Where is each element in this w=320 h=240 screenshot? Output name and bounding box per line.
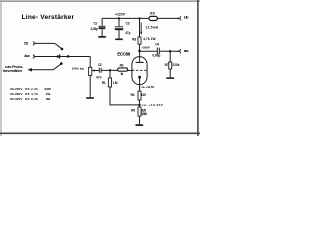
junction rail-R3 [138, 17, 140, 19]
svg-text:C1: C1 [94, 22, 98, 26]
capacitor C4 [156, 48, 158, 55]
wire arm to pot [89, 57, 91, 68]
svg-text:log: log [80, 66, 84, 70]
wire C2 to R2 [102, 69, 118, 71]
svg-text:R1: R1 [102, 81, 106, 85]
wire R3 to node +160V [139, 44, 141, 51]
anode lead [139, 51, 141, 62]
svg-text:C2: C2 [98, 63, 102, 67]
capacitor C1 [99, 25, 106, 27]
svg-text:CD: CD [24, 42, 29, 46]
wire R5 to ground [139, 116, 141, 124]
svg-text:47µ: 47µ [125, 31, 131, 35]
wire node to R7 [169, 51, 171, 62]
connector aus [178, 50, 180, 52]
ground (pot) [86, 97, 94, 99]
cathode dot [138, 76, 141, 79]
svg-text:0,5W: 0,5W [141, 112, 147, 116]
svg-text:R6 4,7k: R6 4,7k [25, 92, 38, 96]
ground (C3) [115, 38, 123, 40]
junction R4-R5 cathode tap [138, 104, 140, 106]
wire C1 drop [101, 18, 103, 25]
supply rail +220V [102, 17, 149, 19]
svg-text:aus: aus [184, 49, 189, 53]
svg-text:C3: C3 [126, 22, 130, 26]
resistor R3 [138, 37, 141, 44]
resistor R5 [138, 107, 141, 116]
wire CD to switch contact [55, 43, 62, 48]
resistor R4 [138, 91, 141, 100]
arrow zum Phono [28, 68, 32, 72]
anode bar [136, 61, 144, 63]
svg-text:1k: 1k [120, 72, 123, 76]
svg-text:47n: 47n [96, 75, 102, 79]
svg-text:R6 8,2k: R6 8,2k [25, 97, 38, 101]
svg-text:R7: R7 [165, 63, 169, 67]
wire CD input [35, 42, 55, 44]
svg-text:+160V: +160V [141, 46, 150, 50]
wire phono output [31, 69, 53, 71]
tube U1 ECC88 envelope [132, 57, 147, 85]
svg-text:Ub:280V: Ub:280V [10, 92, 24, 96]
svg-text:0,33µ: 0,33µ [91, 27, 98, 31]
svg-text:1M: 1M [113, 81, 118, 85]
svg-text:R5: R5 [131, 109, 135, 113]
capacitor C3 [115, 26, 123, 28]
wire pot to ground [89, 75, 91, 97]
svg-text:100k: 100k [72, 66, 80, 70]
ground (R7) [166, 77, 174, 79]
node +160V [138, 50, 141, 53]
wire rail right [157, 17, 178, 19]
connector Ub [178, 17, 180, 19]
svg-text:Ub: Ub [184, 15, 189, 20]
resistor R2 (pill) [118, 68, 128, 71]
wire C4 to aus [160, 50, 179, 52]
wire C3 to ground [118, 30, 120, 38]
svg-text:R4: R4 [131, 93, 135, 97]
switch contact CD [61, 48, 64, 51]
capacitor C2 [98, 68, 100, 73]
svg-text:0,5W: 0,5W [44, 87, 50, 91]
svg-text:Line- Verstärker: Line- Verstärker [22, 14, 75, 21]
ground (C1) [98, 36, 106, 38]
svg-text:R6: R6 [150, 11, 155, 15]
svg-text:100: 100 [141, 93, 146, 97]
wire R1 to cathode tap [110, 87, 139, 105]
svg-text:1W: 1W [46, 92, 50, 96]
svg-text:Vorverstärker: Vorverstärker [3, 69, 23, 73]
svg-text:220k: 220k [172, 63, 179, 67]
junction aus-R7 [169, 50, 171, 52]
switch S1 arm [60, 56, 90, 58]
svg-text:12,5mA: 12,5mA [146, 26, 159, 30]
wire R2 to grid [128, 69, 134, 71]
wire pot wiper to C2 [92, 70, 99, 72]
junction signal-R1 [109, 69, 111, 71]
grid (dashed) [132, 69, 147, 71]
potentiometer 100k log [89, 67, 92, 75]
svg-text:Ub:250V: Ub:250V [10, 87, 24, 91]
wire phono to switch contact [53, 64, 61, 70]
junction rail-C3 [118, 17, 120, 19]
border frame [0, 0, 200, 2]
svg-text:0,68µ: 0,68µ [152, 54, 160, 58]
current arrow 12,5mA [140, 23, 142, 33]
wire Aux input [35, 56, 58, 58]
wire node to C4 [140, 50, 157, 52]
resistor R6 (pill) [149, 16, 157, 20]
svg-text:R3: R3 [132, 37, 136, 41]
resistor R7 [169, 62, 172, 69]
svg-text:ca. +10,25V: ca. +10,25V [142, 103, 164, 107]
svg-text:C4: C4 [155, 43, 159, 47]
wire C3 drop [118, 18, 120, 26]
switch contact Aux [57, 55, 60, 58]
svg-text:ca. +11,5V: ca. +11,5V [141, 85, 155, 89]
wire R1 drop [109, 70, 111, 78]
switch S1 wiper bar [59, 54, 61, 58]
svg-text:Ub:320V: Ub:320V [10, 97, 24, 101]
cathode lead [139, 77, 141, 91]
svg-text:Aux: Aux [24, 54, 30, 58]
svg-text:4,7k 1W: 4,7k 1W [143, 37, 155, 41]
svg-text:R6 2,2k: R6 2,2k [25, 87, 38, 91]
resistor R1 [108, 78, 111, 87]
switch pivot [67, 55, 70, 58]
wire R4 to node [139, 100, 141, 107]
wire R7 to ground [169, 69, 171, 77]
ground (R5) [136, 124, 144, 126]
svg-text:2W: 2W [46, 97, 50, 101]
svg-text:R2: R2 [120, 64, 124, 68]
switch contact phono [60, 62, 63, 65]
connector CD [33, 42, 34, 46]
wire rail to R3 [139, 18, 141, 37]
svg-text:+220V: +220V [115, 13, 126, 17]
connector Aux [33, 55, 34, 59]
svg-text:ECC88: ECC88 [117, 51, 130, 56]
wire C1 to ground [101, 29, 103, 36]
pot wiper arrow [92, 69, 95, 71]
